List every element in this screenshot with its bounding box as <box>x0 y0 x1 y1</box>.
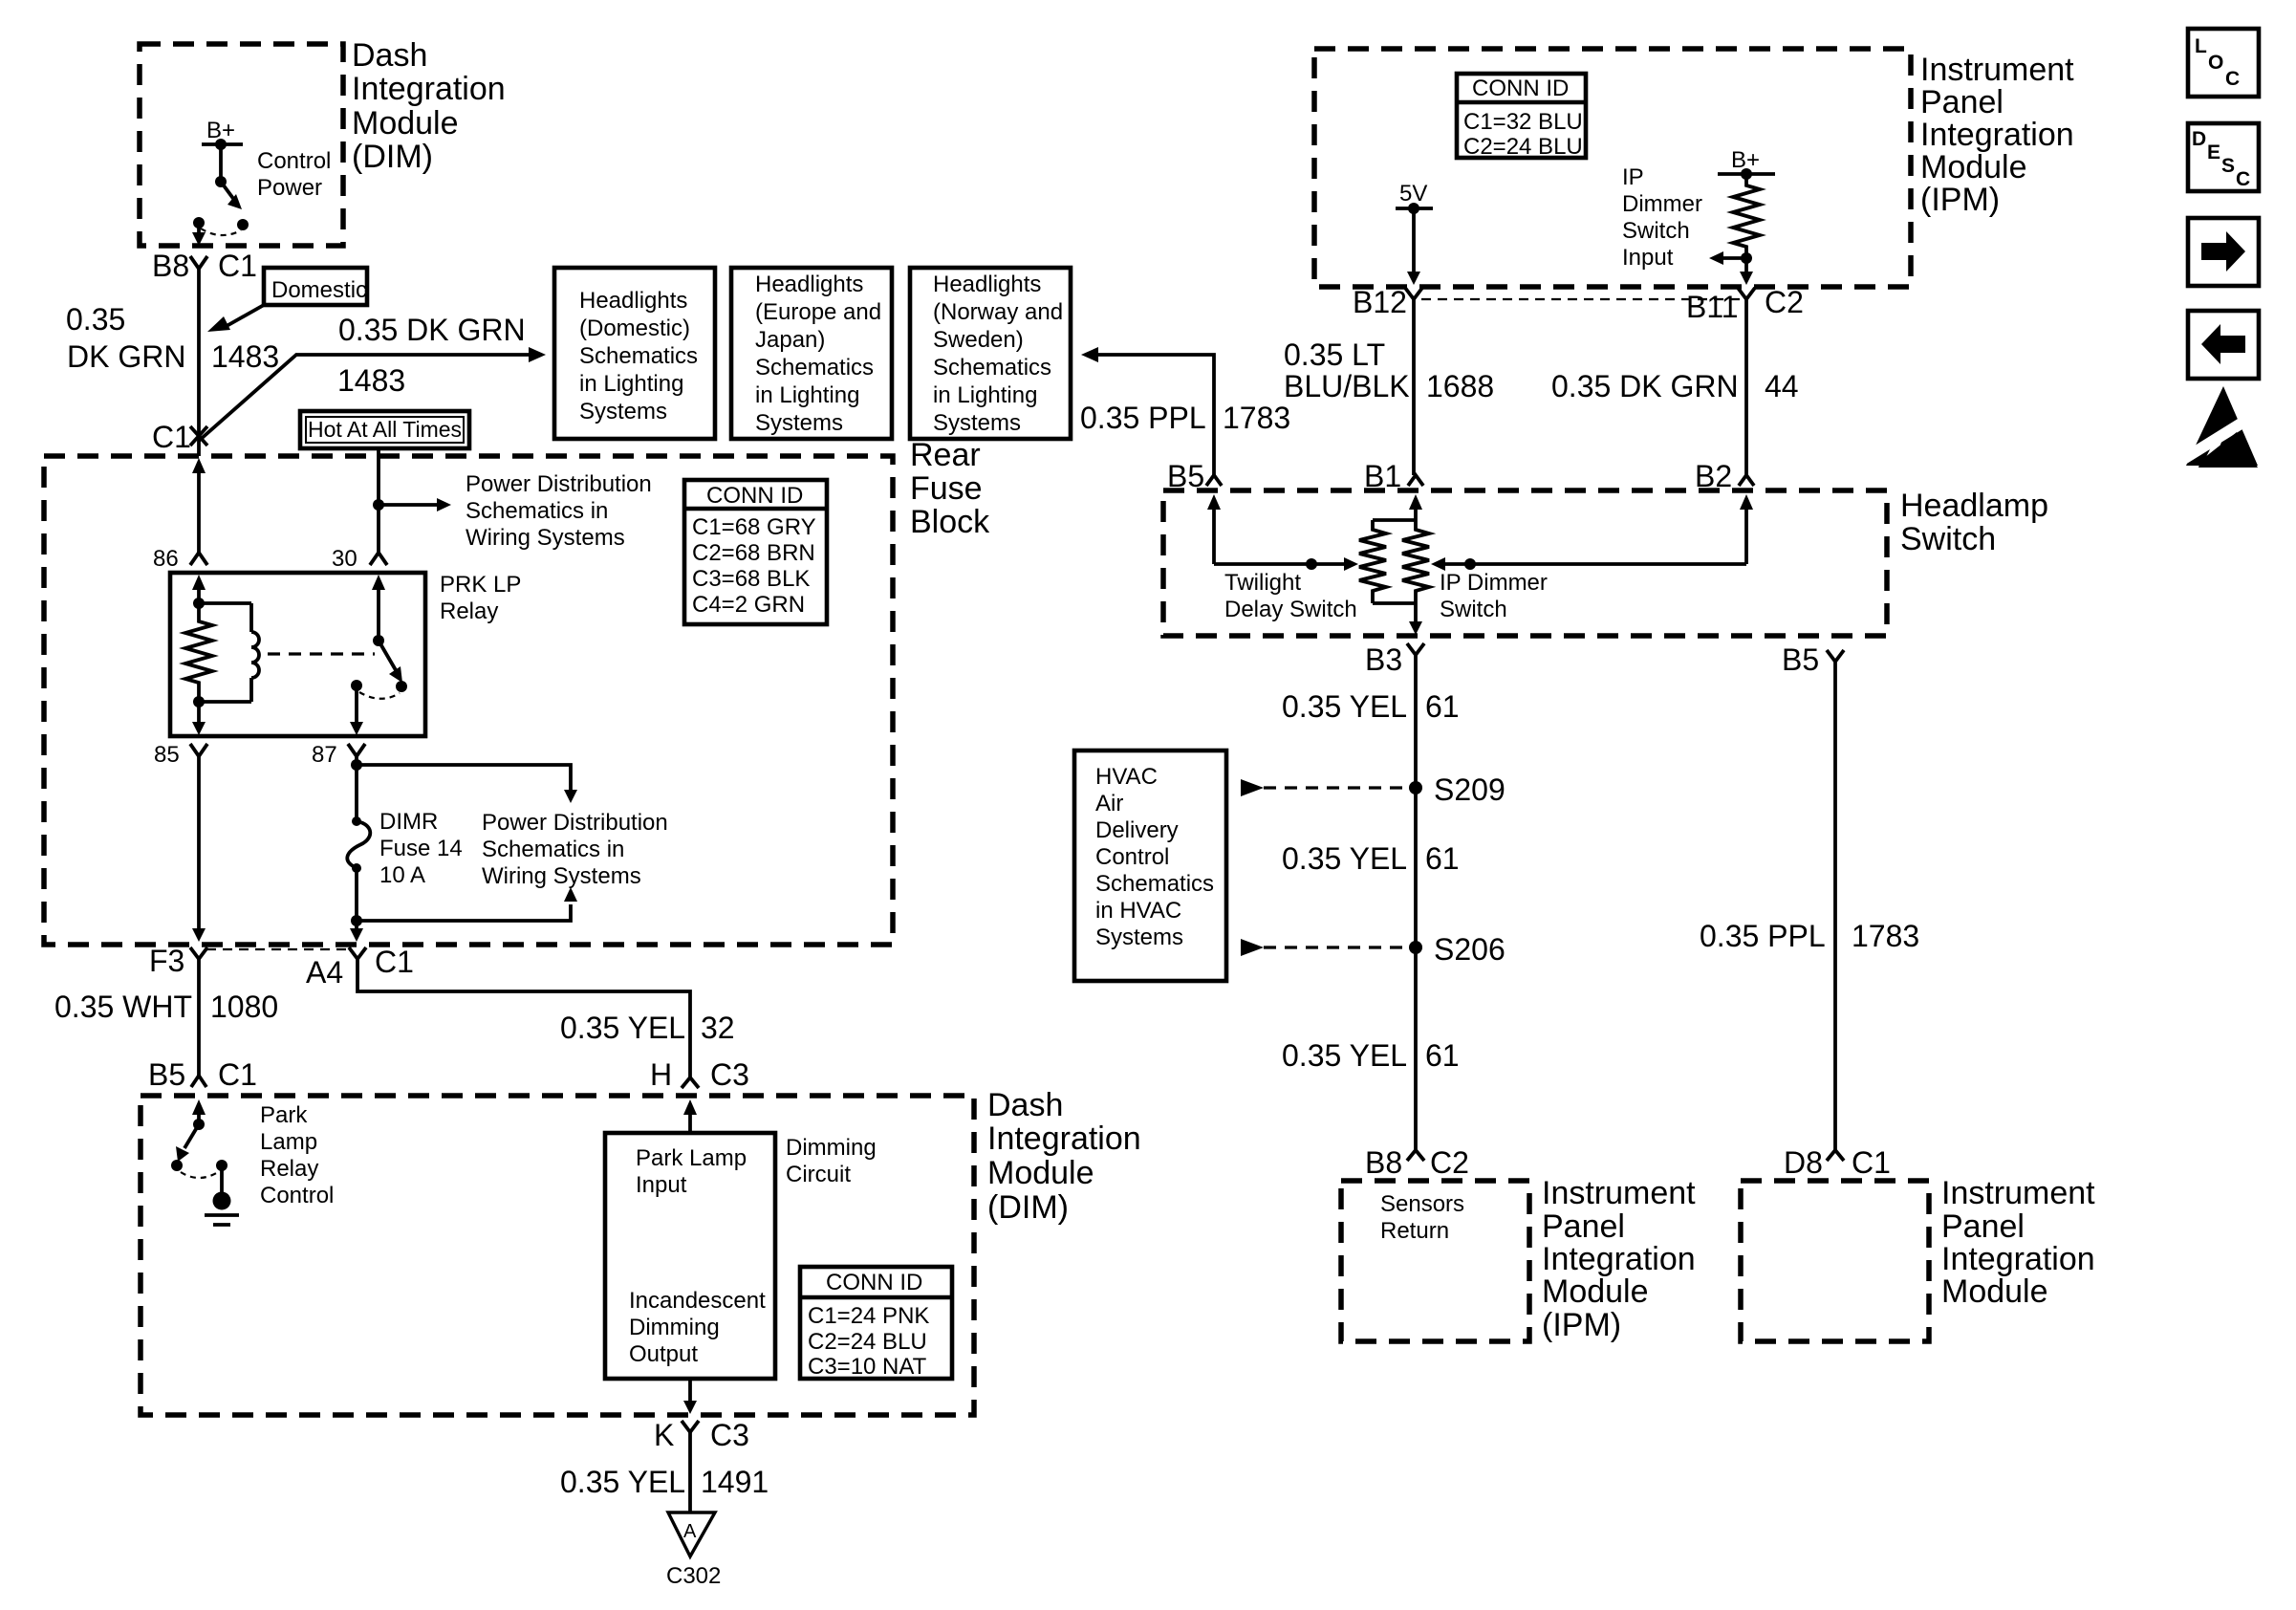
svg-text:(Europe and: (Europe and <box>755 299 881 325</box>
box Headlights (Domestic) <box>554 268 715 439</box>
svg-text:Panel: Panel <box>1542 1208 1625 1245</box>
svg-text:C4=2 GRN: C4=2 GRN <box>692 592 805 618</box>
svg-text:in Lighting: in Lighting <box>755 382 859 408</box>
relay switch travel arc <box>359 692 400 699</box>
wire B12 to B1 <box>1412 299 1416 475</box>
svg-text:32: 32 <box>701 1011 735 1045</box>
svg-text:CONN ID: CONN ID <box>826 1270 922 1295</box>
arrow B1 in <box>1409 494 1422 510</box>
connector D8 C1 fork <box>1827 1150 1844 1161</box>
table CONN ID (Rear Fuse Block) <box>684 480 827 624</box>
box Headlights (Europe and Japan) <box>731 268 892 439</box>
svg-text:B3: B3 <box>1365 642 1402 677</box>
svg-text:Dash: Dash <box>987 1087 1063 1123</box>
svg-text:Relay: Relay <box>260 1156 318 1182</box>
node junction resistor bottom <box>1741 252 1752 264</box>
dashed branch to HVAC (S206) <box>1241 939 1264 956</box>
svg-text:(IPM): (IPM) <box>1542 1307 1621 1343</box>
svg-text:1688: 1688 <box>1426 369 1494 403</box>
connector A4 C1 fork <box>349 947 366 959</box>
svg-text:C1: C1 <box>375 945 414 979</box>
svg-text:Hot At All Times: Hot At All Times <box>308 417 462 442</box>
splice S209 <box>1409 781 1422 794</box>
svg-text:Wiring Systems: Wiring Systems <box>482 863 641 889</box>
svg-text:(IPM): (IPM) <box>1920 182 2000 218</box>
svg-text:0.35 YEL: 0.35 YEL <box>1282 1038 1407 1073</box>
svg-text:Dash: Dash <box>352 37 427 74</box>
svg-text:Module: Module <box>1941 1273 2048 1310</box>
svg-text:Control: Control <box>260 1183 334 1208</box>
svg-text:Japan): Japan) <box>755 327 825 353</box>
connector C1 inline X <box>190 426 207 446</box>
module box Rear Fuse Block <box>44 456 893 945</box>
svg-text:Systems: Systems <box>933 410 1021 436</box>
connector link dashed F3-A4 <box>206 948 350 950</box>
svg-text:Control: Control <box>1095 844 1169 870</box>
arrow B2 in <box>1740 494 1753 510</box>
arrow B5 in <box>1207 494 1221 510</box>
connector B5 C1 fork <box>191 1076 206 1087</box>
svg-text:Delivery: Delivery <box>1095 817 1179 843</box>
svg-text:0.35 YEL: 0.35 YEL <box>560 1465 685 1499</box>
svg-text:in HVAC: in HVAC <box>1095 898 1181 924</box>
arrow to Power Distribution <box>379 503 440 507</box>
wire B+ stem <box>219 144 223 182</box>
wire to Norway headlights <box>1081 347 1098 362</box>
connector B11 C2 fork <box>1738 288 1755 299</box>
svg-text:Systems: Systems <box>755 410 843 436</box>
svg-text:Twilight: Twilight <box>1224 570 1301 596</box>
svg-text:0.35 PPL: 0.35 PPL <box>1700 919 1826 953</box>
svg-text:C2: C2 <box>1765 285 1804 319</box>
splice S206 <box>1409 941 1422 954</box>
svg-text:Systems: Systems <box>579 399 667 424</box>
svg-text:Schematics: Schematics <box>933 355 1051 381</box>
svg-text:K: K <box>654 1418 674 1452</box>
box Headlights (Norway and Sweden) <box>910 268 1071 439</box>
connector B8 C1 fork <box>190 256 207 269</box>
connector K C3 fork <box>682 1421 699 1432</box>
svg-text:0.35 PPL: 0.35 PPL <box>1080 401 1206 435</box>
svg-text:87: 87 <box>312 742 337 768</box>
svg-text:86: 86 <box>153 546 179 572</box>
svg-text:B1: B1 <box>1364 459 1401 493</box>
svg-text:30: 30 <box>332 546 357 572</box>
svg-text:Headlights: Headlights <box>933 272 1041 297</box>
svg-text:E: E <box>2207 141 2220 163</box>
relay coil node bottom <box>193 696 205 707</box>
relay box PRK LP <box>170 573 425 736</box>
svg-text:Schematics: Schematics <box>755 355 874 381</box>
svg-text:Headlamp: Headlamp <box>1900 488 2048 524</box>
svg-text:0.35 YEL: 0.35 YEL <box>1282 841 1407 876</box>
svg-text:(DIM): (DIM) <box>987 1189 1069 1226</box>
arrow branch up to power distribution <box>357 904 571 921</box>
wire to B11 <box>1744 258 1748 272</box>
svg-text:BLU/BLK: BLU/BLK <box>1284 369 1410 403</box>
svg-text:Power Distribution: Power Distribution <box>482 810 668 836</box>
connector B12 fork <box>1405 288 1422 299</box>
wire B11 to B2 <box>1744 299 1748 475</box>
svg-text:1783: 1783 <box>1852 919 1919 953</box>
relay switch contacts <box>351 680 362 691</box>
svg-text:Module: Module <box>352 105 459 141</box>
svg-text:Integration: Integration <box>1920 117 2074 153</box>
svg-text:61: 61 <box>1425 1038 1460 1073</box>
svg-text:1491: 1491 <box>701 1465 769 1499</box>
svg-text:B2: B2 <box>1695 459 1732 493</box>
svg-text:(Norway and: (Norway and <box>933 299 1063 325</box>
node switch pivot <box>215 176 227 187</box>
svg-text:Integration: Integration <box>352 71 506 107</box>
module box DIM (bottom) <box>141 1096 974 1415</box>
svg-text:IP Dimmer: IP Dimmer <box>1440 570 1548 596</box>
svg-text:61: 61 <box>1425 689 1460 724</box>
svg-text:0.35 YEL: 0.35 YEL <box>1282 689 1407 724</box>
svg-text:DIMR: DIMR <box>379 809 438 835</box>
svg-text:Schematics: Schematics <box>1095 871 1214 897</box>
svg-text:Integration: Integration <box>1542 1241 1696 1277</box>
wire switch output <box>197 223 201 234</box>
svg-text:Power Distribution: Power Distribution <box>466 471 652 497</box>
flag box Domestic <box>264 268 367 305</box>
svg-text:Panel: Panel <box>1941 1208 2025 1245</box>
dashed branch to HVAC (S209) <box>1241 779 1264 796</box>
arrow Domestic pointer <box>227 305 264 326</box>
svg-text:C1=32 BLU: C1=32 BLU <box>1463 109 1583 135</box>
arrow IP dimmer switch input <box>1722 256 1746 260</box>
switch travel arc <box>201 228 241 235</box>
svg-text:S206: S206 <box>1434 932 1505 967</box>
svg-text:Module: Module <box>987 1155 1094 1191</box>
svg-text:0.35 DK GRN: 0.35 DK GRN <box>1551 369 1739 403</box>
svg-text:1783: 1783 <box>1223 401 1290 435</box>
wire 85 to F3 <box>197 756 201 928</box>
svg-text:HVAC: HVAC <box>1095 764 1158 790</box>
svg-text:L: L <box>2195 35 2207 57</box>
B+ supply bar <box>202 142 243 146</box>
arrow into fuse block (C1 wire) <box>192 458 206 473</box>
svg-text:Headlights: Headlights <box>579 288 687 314</box>
svg-text:Instrument: Instrument <box>1920 52 2074 88</box>
svg-text:C3=10 NAT: C3=10 NAT <box>808 1354 927 1380</box>
svg-text:DK GRN: DK GRN <box>67 339 185 374</box>
arrow branch to power distribution (down) <box>357 765 571 790</box>
arrow A4 out <box>350 928 363 942</box>
wire park lamp output <box>688 1379 692 1402</box>
connector link dashed B12-B11 <box>1421 298 1740 300</box>
icon LOC button <box>2188 29 2259 97</box>
svg-text:Wiring Systems: Wiring Systems <box>466 525 625 551</box>
pin 30 fork <box>370 553 387 565</box>
svg-text:C302: C302 <box>666 1563 721 1589</box>
arrow IP dimmer wiper <box>1443 562 1746 566</box>
svg-text:C1: C1 <box>152 420 191 454</box>
svg-text:Schematics in: Schematics in <box>482 837 624 862</box>
svg-text:in Lighting: in Lighting <box>933 382 1037 408</box>
switch Control Power arm <box>221 182 234 200</box>
svg-text:Module: Module <box>1920 149 2027 185</box>
resistor IP dimmer input <box>1733 174 1760 258</box>
relay pin85 arrow out <box>197 702 201 723</box>
relay coil node top <box>193 598 205 609</box>
svg-text:A4: A4 <box>306 955 343 990</box>
svg-text:Sensors: Sensors <box>1380 1191 1464 1217</box>
svg-text:Output: Output <box>629 1341 698 1367</box>
wire pot output <box>1414 603 1418 622</box>
svg-text:0.35 YEL: 0.35 YEL <box>560 1011 685 1045</box>
svg-text:C2=24 BLU: C2=24 BLU <box>808 1329 927 1355</box>
relay pin86 arrow in <box>192 575 206 590</box>
svg-text:Park: Park <box>260 1102 308 1128</box>
wire hot feed <box>377 448 380 553</box>
node park relay switch pivot <box>193 1119 205 1130</box>
svg-text:C1: C1 <box>1852 1145 1891 1180</box>
svg-text:O: O <box>2208 52 2223 74</box>
box HVAC reference <box>1074 751 1226 981</box>
module box IPM (bottom right) <box>1741 1181 1929 1341</box>
block Park Lamp dimming <box>605 1133 775 1379</box>
svg-text:Power: Power <box>257 175 322 201</box>
wire A4 to H <box>357 959 690 1077</box>
svg-text:(DIM): (DIM) <box>352 139 433 175</box>
svg-text:85: 85 <box>154 742 180 768</box>
svg-text:Domestic: Domestic <box>271 277 367 303</box>
svg-text:B8: B8 <box>152 249 189 283</box>
svg-text:S209: S209 <box>1434 772 1505 807</box>
wire F3 to B5 <box>197 959 201 1076</box>
pin 87 fork <box>348 744 365 756</box>
svg-text:5V: 5V <box>1399 181 1427 207</box>
potentiometer bracket top <box>1373 518 1416 522</box>
svg-text:61: 61 <box>1425 841 1460 876</box>
svg-text:44: 44 <box>1765 369 1799 403</box>
table CONN ID (DIM) <box>800 1267 952 1379</box>
svg-text:Sweden): Sweden) <box>933 327 1024 353</box>
relay switch pivot <box>373 635 384 646</box>
connector B3 fork <box>1407 643 1424 655</box>
svg-text:C2=24 BLU: C2=24 BLU <box>1463 134 1583 160</box>
svg-text:S: S <box>2221 155 2235 177</box>
module box Headlamp Switch <box>1163 490 1887 636</box>
svg-text:10 A: 10 A <box>379 862 425 888</box>
svg-text:IP: IP <box>1622 164 1644 190</box>
flag box Hot At All Times <box>300 411 469 448</box>
svg-text:Schematics: Schematics <box>579 343 698 369</box>
potentiometer IP dimmer (right) <box>1402 520 1429 603</box>
svg-text:1483: 1483 <box>211 339 279 374</box>
svg-text:0.35 DK GRN: 0.35 DK GRN <box>338 313 526 347</box>
icon DESC button <box>2188 123 2259 191</box>
svg-text:C3=68 BLK: C3=68 BLK <box>692 566 810 592</box>
connector F3 fork <box>190 947 207 959</box>
svg-text:C: C <box>2236 168 2250 190</box>
svg-text:Lamp: Lamp <box>260 1129 317 1155</box>
relay pin87 arrow out <box>355 685 358 723</box>
svg-text:C3: C3 <box>710 1418 749 1452</box>
node junction 87 branch <box>351 759 362 771</box>
wire B8 to C1 <box>197 269 201 456</box>
svg-text:Input: Input <box>1622 245 1674 271</box>
svg-text:Air: Air <box>1095 791 1123 816</box>
relay actuation dashed link <box>268 652 375 655</box>
svg-text:Fuse: Fuse <box>910 470 983 507</box>
svg-text:C1: C1 <box>218 1057 257 1092</box>
svg-text:Integration: Integration <box>1941 1241 2095 1277</box>
svg-text:Headlights: Headlights <box>755 272 863 297</box>
module box IPM <box>1314 49 1911 287</box>
svg-text:Block: Block <box>910 504 990 540</box>
wire 87 down <box>355 756 358 821</box>
potentiometer twilight (left) <box>1359 520 1386 603</box>
svg-text:B5: B5 <box>148 1057 185 1092</box>
svg-text:Control: Control <box>257 148 331 174</box>
svg-text:Relay: Relay <box>440 598 498 624</box>
potentiometer bracket bottom <box>1373 601 1416 605</box>
svg-text:B8: B8 <box>1365 1145 1402 1180</box>
table CONN ID (IPM) <box>1457 74 1586 158</box>
svg-text:D: D <box>2192 128 2206 150</box>
svg-text:Rear: Rear <box>910 437 981 473</box>
wire B3 to B8 <box>1414 655 1418 1150</box>
svg-text:Switch: Switch <box>1900 521 1996 557</box>
node junction fuse output <box>351 915 362 926</box>
icon arrow right button <box>2188 218 2259 286</box>
switch travel arc <box>181 1172 218 1178</box>
wire 5V to B12 <box>1412 208 1416 272</box>
svg-text:in Lighting: in Lighting <box>579 371 683 397</box>
svg-text:D8: D8 <box>1784 1145 1823 1180</box>
wire to ground <box>220 1165 224 1195</box>
svg-text:Panel: Panel <box>1920 84 2004 120</box>
svg-text:0.35 LT: 0.35 LT <box>1284 337 1385 372</box>
fuse DIMR Fuse 14 <box>352 816 361 826</box>
relay resistor <box>185 603 212 702</box>
svg-text:Dimmer: Dimmer <box>1622 191 1702 217</box>
icon arrow left button <box>2188 311 2259 379</box>
svg-text:Instrument: Instrument <box>1941 1175 2095 1211</box>
connector B5 fork (right) <box>1827 650 1844 662</box>
svg-text:Dimming: Dimming <box>629 1315 720 1340</box>
connector H C3 fork <box>682 1077 699 1088</box>
svg-text:CONN ID: CONN ID <box>706 483 803 509</box>
switch contacts <box>171 1160 183 1171</box>
pin 85 fork <box>190 744 207 756</box>
svg-text:C1=68 GRY: C1=68 GRY <box>692 514 816 540</box>
svg-text:Input: Input <box>636 1172 687 1198</box>
svg-text:Module: Module <box>1542 1273 1649 1310</box>
svg-text:1080: 1080 <box>210 990 278 1024</box>
svg-text:Park Lamp: Park Lamp <box>636 1145 747 1171</box>
svg-text:Return: Return <box>1380 1218 1449 1244</box>
connector B1 fork <box>1408 475 1423 486</box>
node junction hot feed <box>373 499 384 511</box>
svg-text:C1: C1 <box>218 249 257 283</box>
svg-text:Circuit: Circuit <box>786 1162 851 1187</box>
arrow H in <box>683 1099 697 1115</box>
svg-text:A: A <box>683 1521 697 1542</box>
svg-text:Dimming: Dimming <box>786 1135 877 1161</box>
module box IPM Sensors Return <box>1341 1181 1529 1341</box>
connector B2 fork <box>1739 475 1754 486</box>
svg-text:Switch: Switch <box>1622 218 1690 244</box>
svg-text:Incandescent: Incandescent <box>629 1288 766 1314</box>
svg-text:(Domestic): (Domestic) <box>579 315 690 341</box>
module box DIM (top) <box>140 44 343 246</box>
pin 86 fork <box>190 553 207 565</box>
svg-text:C2=68 BRN: C2=68 BRN <box>692 540 815 566</box>
svg-text:C2: C2 <box>1430 1145 1469 1180</box>
svg-text:C3: C3 <box>710 1057 749 1092</box>
relay coil <box>249 603 253 632</box>
wire fuse output <box>355 868 358 928</box>
svg-text:B5: B5 <box>1782 642 1819 677</box>
svg-text:Switch: Switch <box>1440 597 1507 622</box>
ground symbol <box>213 1192 231 1210</box>
svg-text:Instrument: Instrument <box>1542 1175 1696 1211</box>
svg-text:Systems: Systems <box>1095 925 1183 950</box>
connector B5 fork (headlamp switch top) <box>1206 475 1222 486</box>
svg-text:B11: B11 <box>1686 290 1739 324</box>
svg-text:0.35 WHT: 0.35 WHT <box>54 990 192 1024</box>
svg-text:Integration: Integration <box>987 1120 1141 1157</box>
svg-text:PRK LP: PRK LP <box>440 572 521 598</box>
svg-text:C: C <box>2225 68 2240 90</box>
switch contacts <box>193 217 205 228</box>
svg-text:0.35: 0.35 <box>66 302 125 337</box>
connector B8 C2 fork <box>1407 1150 1424 1161</box>
svg-text:C1=24 PNK: C1=24 PNK <box>808 1303 929 1329</box>
svg-text:Schematics in: Schematics in <box>466 498 608 524</box>
arrow B5 in <box>192 1099 206 1115</box>
svg-text:CONN ID: CONN ID <box>1472 76 1569 101</box>
wire B5 to D8 <box>1833 662 1837 1150</box>
svg-text:B12: B12 <box>1353 285 1407 319</box>
switch Park Lamp Relay arm <box>184 1124 199 1148</box>
relay pin30 arrow in <box>372 575 385 590</box>
wire to Headlights (Domestic) <box>199 355 531 441</box>
wire K to C302 <box>688 1432 692 1512</box>
icon ESD warning <box>2186 386 2258 466</box>
relay switch arm <box>379 641 396 670</box>
off-page connector A triangle <box>668 1512 715 1556</box>
svg-text:H: H <box>650 1057 672 1092</box>
arrow twilight delay wiper <box>1214 562 1346 566</box>
svg-text:1483: 1483 <box>337 363 405 398</box>
svg-text:Fuse 14: Fuse 14 <box>379 836 463 861</box>
svg-text:F3: F3 <box>149 944 184 978</box>
svg-text:Delay Switch: Delay Switch <box>1224 597 1357 622</box>
